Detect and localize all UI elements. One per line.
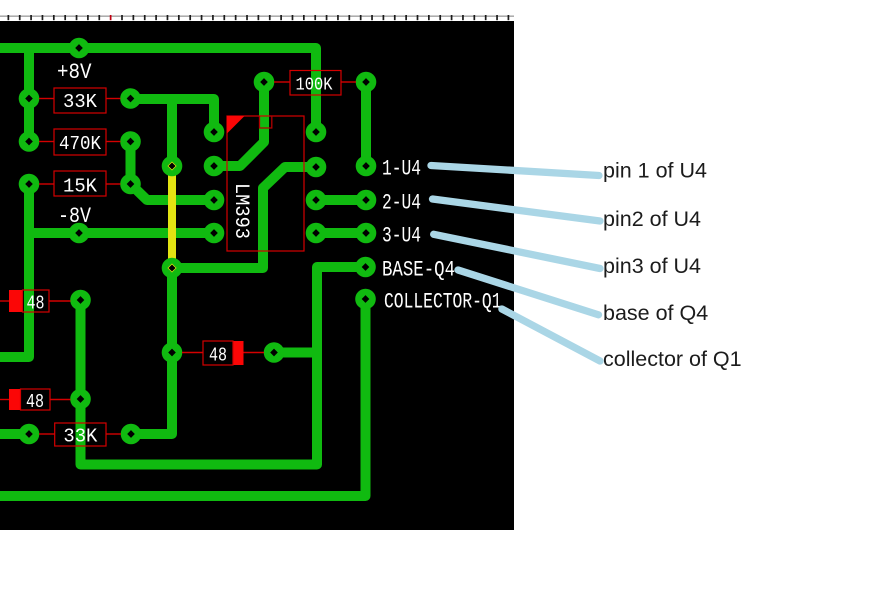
svg-text:+8V: +8V (57, 60, 92, 85)
svg-text:33K: 33K (63, 91, 97, 113)
wire U4 pin row to node 3-U4 (316, 228, 366, 238)
svg-text:15K: 15K (63, 176, 97, 198)
ruler tick marks (8, 15, 510, 20)
node BASE-Q4 pad (355, 257, 376, 278)
wire BASE-Q4 net: pad left, down, left, up to 48 resistors (81, 267, 366, 465)
wire vertical x29 down to 470K (24, 48, 34, 142)
pad 15K left (19, 174, 40, 195)
svg-text:3-U4: 3-U4 (382, 223, 421, 249)
node 2-U4 pad (356, 190, 377, 211)
callout line collector of Q1 (502, 309, 600, 361)
wire 33K right to U4 left pin1 (131, 99, 215, 132)
via top of yellow jumper (162, 156, 183, 177)
pad 100K left (254, 72, 275, 93)
resistor 15K (39, 171, 121, 198)
pad U4 pin 6 (right col) (306, 190, 327, 211)
wire 15K right diagonal to U4 left pin3 (131, 184, 215, 200)
wire 48 middle right pad to BASE-Q4 net (274, 348, 317, 358)
node 3-U4 pad (356, 223, 377, 244)
U4 top notch outline (260, 116, 272, 128)
pad U4 pin 7 (right col) (306, 157, 327, 178)
wire branch down to via top (167, 99, 177, 166)
wire via bottom down to 48 and 33K (131, 268, 172, 434)
svg-text:470K: 470K (59, 133, 101, 155)
pad 48 middle right (264, 342, 285, 363)
pad 48 upper-left resistor right (70, 290, 91, 311)
svg-text:base of Q4: base of Q4 (603, 301, 708, 325)
svg-text:LM393: LM393 (229, 183, 252, 239)
node COLLECTOR-Q1 pad (355, 289, 376, 310)
pad U4 pin 2 (left col) (204, 156, 225, 177)
via bottom of yellow jumper (162, 258, 183, 279)
wire COLLECTOR-Q1 net down and out left (0, 299, 366, 496)
resistor 33K (bottom) (39, 423, 121, 448)
ruler baseline (0, 15, 514, 17)
svg-text:-8V: -8V (58, 204, 92, 229)
callout line pin 1 of U4 (431, 166, 599, 176)
junction pad on -8V rail (69, 223, 90, 244)
callout line pin2 of U4 (433, 199, 601, 221)
pad 48 lower-left resistor right (70, 389, 91, 410)
svg-text:2-U4: 2-U4 (382, 190, 421, 216)
wire -8V horizontal to U4 left pin4 (26, 228, 214, 238)
resistor 48 (upper left) (0, 290, 71, 315)
svg-text:pin 1 of U4: pin 1 of U4 (603, 159, 707, 183)
pad 470K right (120, 131, 141, 152)
pad 100K right (356, 72, 377, 93)
svg-text:BASE-Q4: BASE-Q4 (382, 257, 455, 283)
pad U4 pin 3 (left col) (204, 190, 225, 211)
op-amp U4 LM393 outline (227, 116, 304, 251)
wire via bottom up through U4 to pin 1-U4 inner pad (172, 167, 316, 268)
pad U4 pin 8 (right col) (306, 122, 327, 143)
wire U4 pin row to node 2-U4 (316, 195, 366, 205)
pad U4 pin 1 (left col) (204, 122, 225, 143)
svg-text:48: 48 (27, 293, 45, 315)
wire top +8V rail to U4 pin8 (0, 48, 316, 132)
pad 33K bottom right (121, 424, 142, 445)
pad 33K bottom left (19, 424, 40, 445)
pad 33K right (120, 88, 141, 109)
yellow jumper wire (bottom layer) (168, 166, 176, 268)
wire 100K left down to U4 left pin2 (214, 82, 264, 166)
board background (0, 21, 514, 530)
wire -8V vertical from 15K left down and out left (0, 184, 29, 357)
svg-text:COLLECTOR-Q1: COLLECTOR-Q1 (384, 290, 502, 315)
resistor 48 (lower left) (0, 389, 71, 413)
svg-text:pin3 of U4: pin3 of U4 (603, 254, 701, 278)
svg-text:pin2 of U4: pin2 of U4 (603, 207, 701, 231)
svg-text:48: 48 (209, 345, 227, 367)
U4 pin 1 marker triangle (227, 116, 245, 134)
node 1-U4 pad (356, 156, 377, 177)
svg-text:48: 48 (26, 391, 44, 413)
pad 33K left (19, 88, 40, 109)
pad U4 pin 5 (right col) (306, 223, 327, 244)
svg-text:100K: 100K (296, 74, 334, 95)
callout line pin3 of U4 (434, 234, 600, 268)
pad 15K right (120, 174, 141, 195)
callout line base of Q4 (458, 270, 599, 315)
resistor 470K (39, 129, 121, 155)
pad 48 middle left (162, 342, 183, 363)
wire 470K right to 15K right (126, 142, 136, 185)
resistor 48 (middle) (182, 341, 264, 367)
pad 470K left (19, 131, 40, 152)
resistor 100K (274, 71, 356, 96)
wire 33K bottom left pad out left (0, 429, 29, 439)
wire 100K right down to node 1-U4 (361, 82, 371, 166)
junction pad on +8V rail (69, 38, 90, 59)
pad U4 pin 4 (left col) (204, 223, 225, 244)
svg-text:1-U4: 1-U4 (382, 156, 421, 182)
svg-text:collector of Q1: collector of Q1 (603, 347, 742, 371)
resistor 33K (top) (39, 88, 121, 113)
svg-text:33K: 33K (63, 426, 97, 448)
